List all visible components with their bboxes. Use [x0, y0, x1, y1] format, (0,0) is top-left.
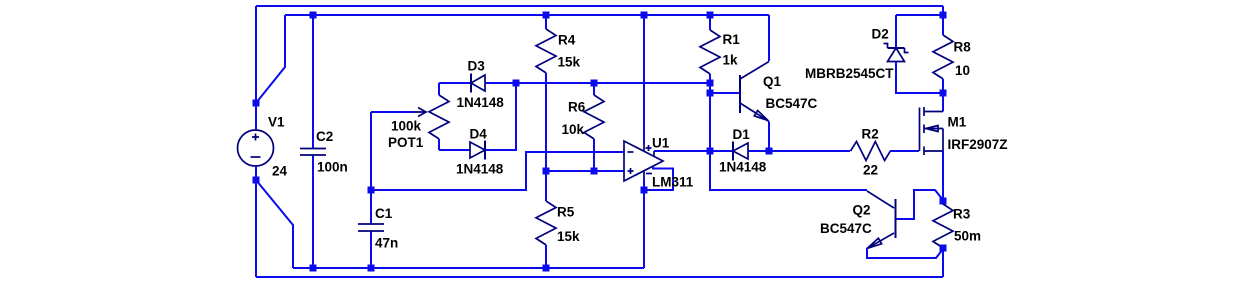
node: C2 top junction — [310, 12, 317, 19]
svg-text:24: 24 — [272, 164, 288, 179]
svg-text:C1: C1 — [375, 206, 393, 221]
MOSFET M1 — [920, 107, 944, 155]
svg-text:POT1: POT1 — [388, 135, 424, 150]
svg-text:22: 22 — [863, 163, 878, 178]
capacitor C1 — [370, 190, 372, 268]
wire: U1 minus input route to wiper node — [371, 152, 624, 190]
transistor Q1 — [740, 62, 769, 122]
wire: junction down to D4 cathode — [485, 83, 516, 150]
node: R3 bottom junction — [940, 245, 947, 252]
wire: Q1 emitter down to D1 node — [768, 122, 770, 152]
node: D2 top junction — [940, 12, 947, 19]
wire: pot top lead — [438, 83, 440, 95]
diode D3 — [471, 74, 485, 93]
wire: D1 to R2 — [748, 150, 850, 152]
wire: R2 to M1 gate — [890, 150, 919, 152]
node: V1 plus junction — [253, 100, 260, 107]
wire: drive node down to Q2 collector — [710, 152, 867, 190]
svg-text:R3: R3 — [953, 207, 971, 222]
wire: Q1 base — [710, 92, 739, 94]
svg-text:1N4148: 1N4148 — [457, 95, 505, 110]
resistor R5 — [545, 171, 547, 268]
svg-text:1k: 1k — [723, 53, 739, 68]
wire: V1 bottom pin stub — [255, 166, 257, 180]
svg-text:R4: R4 — [558, 33, 576, 48]
wire: Q2 base to sense node — [897, 190, 943, 219]
svg-text:Q2: Q2 — [853, 203, 871, 218]
node: R4 top junction — [543, 12, 550, 19]
wire: outer bottom rail — [256, 276, 943, 278]
wire: U1 plus input net — [546, 170, 624, 172]
resistor R6 — [593, 83, 595, 171]
node: Q1 base junction — [707, 90, 714, 97]
wire: wiper horizontal — [371, 111, 414, 113]
svg-text:D2: D2 — [872, 27, 889, 42]
wire: V1 top pin stub — [255, 103, 257, 130]
capacitor C2 — [312, 15, 314, 268]
svg-text:BC547C: BC547C — [820, 221, 872, 236]
svg-text:100n: 100n — [317, 160, 348, 175]
wire: V1- diagonal to inner bottom rail — [256, 180, 293, 268]
node: C1 top junction — [368, 187, 375, 194]
node: feedback/R1 junction — [707, 80, 714, 87]
node: C1 bottom junction — [368, 265, 375, 272]
wire: inner top rail — [285, 14, 769, 16]
wire: D2 top lead — [895, 15, 897, 48]
wire: inner bottom rail — [293, 267, 644, 269]
svg-text:MBRB2545CT: MBRB2545CT — [805, 66, 894, 81]
resistor R3 — [942, 247, 944, 249]
wire: top rail right corner down — [942, 6, 944, 35]
wire: U1 V+ up to inner rail — [643, 15, 645, 143]
svg-text:10k: 10k — [562, 122, 585, 137]
wire: D2 bottom to drain node — [896, 62, 943, 94]
node: R8/D2/M1 drain junction — [940, 90, 947, 97]
node: C2 bottom junction — [310, 265, 317, 272]
diode D4 — [470, 141, 485, 160]
svg-text:IRF2907Z: IRF2907Z — [948, 137, 1008, 152]
svg-text:10: 10 — [955, 63, 970, 78]
node: D3/D4/R6 junction — [513, 80, 520, 87]
resistor R2 — [851, 142, 891, 161]
svg-text:1N4148: 1N4148 — [719, 160, 767, 175]
svg-text:M1: M1 — [948, 115, 967, 130]
wire: inner rail drop + diagonal to V1+ — [256, 15, 285, 103]
svg-text:R1: R1 — [723, 32, 741, 47]
node: U1 out / D1 / Q1 base column junction — [707, 148, 714, 155]
wire: pot bottom lead — [438, 139, 440, 150]
svg-text:R5: R5 — [557, 205, 575, 220]
svg-text:C2: C2 — [316, 129, 333, 144]
transistor Q2 (mirrored) — [867, 191, 903, 249]
wire: U1 output — [654, 150, 710, 152]
node: V1 minus junction — [253, 177, 260, 184]
svg-text:D4: D4 — [470, 127, 488, 142]
wire: R3 bottom to outer bottom rail — [942, 248, 944, 277]
svg-text:Q1: Q1 — [763, 74, 782, 89]
wire: Q1 collector to inner rail — [768, 15, 770, 61]
node: R4/R5 junction — [543, 168, 550, 175]
node: D1/Q1 emitter junction — [766, 148, 773, 155]
wire: U1 V- down to bottom rail — [643, 179, 645, 268]
svg-text:50m: 50m — [954, 229, 981, 244]
svg-text:U1: U1 — [652, 136, 670, 151]
node: U1 V+ junction — [641, 12, 648, 19]
svg-text:47n: 47n — [375, 236, 398, 251]
diode D1 — [733, 142, 748, 161]
voltage source V1 — [238, 130, 274, 166]
svg-text:V1: V1 — [268, 115, 285, 130]
potentiometer POT1 body — [429, 95, 449, 139]
op-amp U1 LM311 — [624, 141, 663, 181]
svg-text:15k: 15k — [557, 229, 580, 244]
wire: M1 source down to sense node — [942, 151, 944, 201]
node: R5 bottom junction — [543, 265, 550, 272]
svg-text:100k: 100k — [391, 119, 422, 134]
svg-text:LM311: LM311 — [652, 175, 694, 190]
svg-text:D1: D1 — [733, 127, 751, 142]
node: U1 V-/pin1 junction — [641, 187, 648, 194]
node: R6 top junction — [591, 80, 598, 87]
svg-text:D3: D3 — [468, 59, 486, 74]
wire: pot wiper node down to C1 and U1- — [370, 112, 372, 190]
svg-text:BC547C: BC547C — [766, 96, 818, 111]
svg-text:R8: R8 — [954, 40, 972, 55]
wire: left vertical from V1+ to top rail — [255, 6, 257, 103]
svg-text:R2: R2 — [862, 127, 879, 142]
wire: U1 pin1 (emitter) loop to V- — [646, 166, 673, 190]
wire: D2 top connection — [896, 14, 943, 16]
wire: pot bottom to D4 anode — [439, 149, 470, 151]
svg-text:R6: R6 — [568, 100, 586, 115]
node: R1 top junction — [707, 12, 714, 19]
node: R6 bottom junction — [591, 168, 598, 175]
node: M1 source / R3 / Q2 base junction — [940, 198, 947, 205]
wire: feedback net y=83 (pot top to D3 to R6 to R1) — [439, 82, 710, 84]
resistor R1 — [709, 15, 711, 152]
wire: outer top supply rail — [256, 5, 943, 7]
wire: D1 left lead — [710, 150, 733, 152]
diode D2 (schottky) — [884, 44, 909, 62]
wire: Q2 emitter to R3 bottom — [867, 248, 943, 258]
potentiometer POT1 wiper arrow — [414, 108, 426, 117]
wire: V1- down to outer bottom rail — [255, 180, 257, 277]
resistor R4 — [545, 15, 547, 171]
svg-text:15k: 15k — [558, 55, 581, 70]
resistor R8 — [942, 79, 944, 93]
svg-text:1N4148: 1N4148 — [456, 162, 504, 177]
wire: drain node to M1 drain — [942, 93, 944, 112]
